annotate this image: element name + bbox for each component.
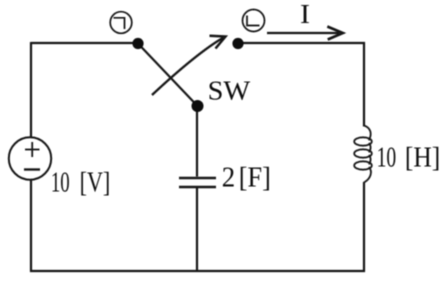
svg-text:10: 10 xyxy=(377,143,397,174)
svg-text:[H]: [H] xyxy=(405,143,440,174)
svg-text:[F]: [F] xyxy=(239,163,271,194)
svg-text:SW: SW xyxy=(208,76,251,106)
svg-text:[V]: [V] xyxy=(80,168,111,199)
svg-text:2: 2 xyxy=(222,163,235,194)
svg-text:I: I xyxy=(300,0,310,29)
svg-text:10: 10 xyxy=(51,168,70,199)
